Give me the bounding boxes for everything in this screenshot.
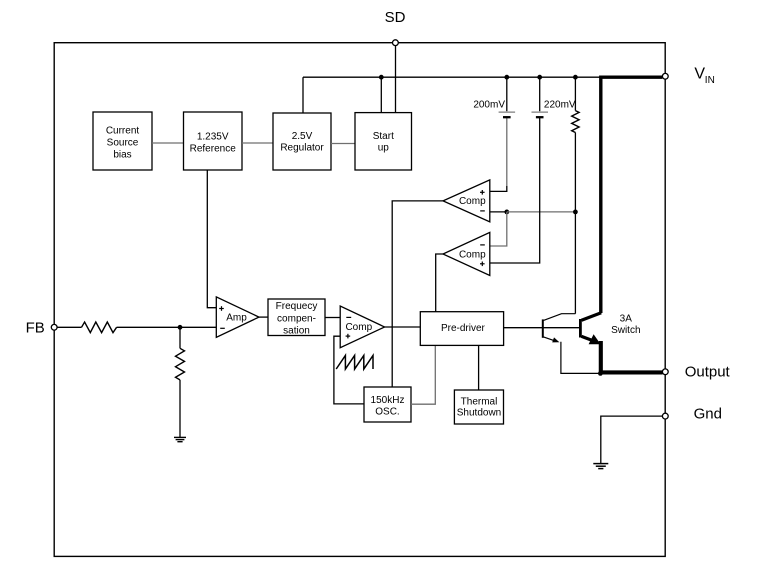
svg-text:V: V xyxy=(694,65,705,82)
svg-text:Output: Output xyxy=(685,363,731,380)
svg-text:Thermal: Thermal xyxy=(461,396,498,407)
svg-text:1.235V: 1.235V xyxy=(197,132,229,143)
sawtooth waveform xyxy=(336,355,373,369)
wire sense resistor to Q1 collector xyxy=(574,212,576,314)
node rail/200mV xyxy=(504,75,509,80)
box pre-driver xyxy=(420,312,503,346)
svg-text:3A: 3A xyxy=(620,314,633,325)
wire gnd terminal to ground xyxy=(601,416,663,463)
svg-text:IN: IN xyxy=(705,75,715,86)
wire riser 2.5V regulator to rail xyxy=(302,77,304,113)
svg-text:bias: bias xyxy=(113,150,131,161)
svg-text:2.5V: 2.5V xyxy=(292,131,313,142)
wire bias to reference xyxy=(152,142,184,144)
terminal VIN xyxy=(662,73,668,79)
svg-text:Reference: Reference xyxy=(190,144,237,155)
wire C1 minus to sense resistor xyxy=(507,211,576,213)
wire PWM plus to oscillator xyxy=(334,336,364,404)
thick wire VIN to Q2 collector xyxy=(601,77,663,313)
transistor Q1 driver xyxy=(543,314,601,374)
svg-text:Comp: Comp xyxy=(345,322,372,333)
wire C1 plus to 200mV source xyxy=(490,186,507,191)
svg-text:Gnd: Gnd xyxy=(694,405,722,422)
svg-text:Frequecy: Frequecy xyxy=(276,301,318,312)
comparator C1 current limit xyxy=(443,180,490,222)
battery 220mV xyxy=(532,77,549,117)
wire oscillator to pre-driver xyxy=(411,345,435,404)
box start up xyxy=(355,113,412,170)
comparator PWM xyxy=(340,306,384,348)
node sense resistor junction xyxy=(573,210,578,215)
wire C1 minus stub xyxy=(490,211,507,213)
wire C1 out to oscillator xyxy=(392,201,443,387)
wire SD to start-up xyxy=(395,46,397,113)
svg-text:Start: Start xyxy=(373,131,394,142)
node rail/220mV xyxy=(537,75,542,80)
resistor R3 current sense xyxy=(572,77,579,212)
ground G2 xyxy=(593,464,608,469)
thick wire Q2 emitter to output xyxy=(601,341,663,372)
ground G1 xyxy=(174,437,186,441)
svg-text:Comp: Comp xyxy=(459,250,486,261)
node emitter/output junction xyxy=(598,371,603,376)
svg-text:200mV: 200mV xyxy=(473,100,505,111)
wire pre-driver to thermal shutdown xyxy=(478,345,480,389)
box thermal shutdown xyxy=(454,390,503,424)
wire divider resistor to ground xyxy=(179,380,181,438)
wire reference to amp plus input xyxy=(207,170,216,308)
wire pre-driver to transistor bases xyxy=(504,327,581,329)
box 2.5V regulator xyxy=(273,113,331,170)
svg-text:up: up xyxy=(378,143,390,154)
wire junction to divider resistor xyxy=(179,327,181,348)
svg-text:sation: sation xyxy=(283,326,310,337)
svg-text:Switch: Switch xyxy=(611,325,640,336)
box 1.235V reference xyxy=(184,112,243,170)
wire C1 minus to C2 minus xyxy=(490,212,507,246)
svg-text:Current: Current xyxy=(106,126,140,137)
terminal Gnd xyxy=(662,413,668,419)
node junction rail/start-up xyxy=(379,75,384,80)
box current source bias xyxy=(93,112,152,170)
chip boundary xyxy=(54,43,665,557)
wire amp out xyxy=(259,316,268,318)
svg-text:Source: Source xyxy=(107,138,139,149)
wire PWM out to pre-driver xyxy=(385,326,421,328)
wire reference to regulator xyxy=(242,142,273,144)
node C1 minus junction xyxy=(504,210,509,215)
wire C2 plus to 220mV source xyxy=(490,118,540,263)
wire resistor to amp minus xyxy=(117,326,217,328)
svg-text:FB: FB xyxy=(26,320,45,337)
svg-text:SD: SD xyxy=(385,9,406,26)
svg-text:Pre-driver: Pre-driver xyxy=(441,323,486,334)
resistor R1 series FB xyxy=(82,322,117,333)
svg-text:Shutdown: Shutdown xyxy=(457,408,501,419)
svg-text:Amp: Amp xyxy=(226,313,247,324)
svg-text:150kHz: 150kHz xyxy=(371,395,405,406)
svg-text:Comp: Comp xyxy=(459,196,486,207)
comparator C2 current limit xyxy=(443,232,490,275)
box frequency compensation xyxy=(268,299,325,337)
svg-text:compen-: compen- xyxy=(277,313,316,324)
op-amp Amp xyxy=(216,297,259,337)
svg-text:220mV: 220mV xyxy=(544,100,576,111)
wire riser start-up to rail xyxy=(380,77,382,112)
wire C2 out to pre-driver xyxy=(436,254,443,312)
terminal Output xyxy=(662,369,668,375)
wire regulator to start-up xyxy=(331,143,355,145)
svg-text:Regulator: Regulator xyxy=(280,143,324,154)
wire FB to series resistor xyxy=(57,326,81,328)
svg-text:OSC.: OSC. xyxy=(375,407,399,418)
transistor Q2 3A switch xyxy=(580,313,601,345)
wire compensation to PWM comparator xyxy=(325,317,340,319)
box 150kHz OSC xyxy=(364,387,411,422)
resistor R2 divider xyxy=(176,348,185,380)
node rail/sense resistor xyxy=(573,75,578,80)
wire VIN rail xyxy=(303,76,601,78)
battery 200mV xyxy=(499,77,515,117)
node FB divider junction xyxy=(178,325,183,330)
